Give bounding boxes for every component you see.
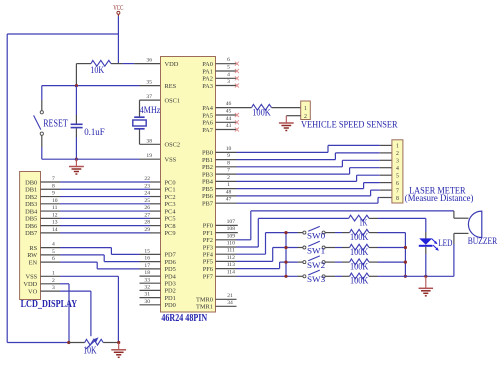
svg-text:6: 6 [396,181,399,187]
svg-text:SW3: SW3 [307,274,325,284]
svg-text:PB6: PB6 [202,193,213,200]
pin PA5 45 stub no-connect [216,114,237,116]
wire top horizontal from VCC [7,33,118,35]
junction right SW2 [404,261,407,264]
wire LCD VDD down [41,284,70,343]
pin PA6 44 stub no-connect [216,121,237,123]
wire PB0 pin 10 to laser meter pin 1 [216,145,392,152]
svg-text:6: 6 [52,256,55,262]
svg-text:33: 33 [144,277,150,283]
svg-text:29: 29 [144,227,150,233]
svg-text:22: 22 [144,176,150,182]
wire PB3 pin 7 to laser meter pin 4 [216,168,392,174]
svg-text:10: 10 [52,198,58,204]
svg-text:114: 114 [227,269,235,275]
svg-text:PD3: PD3 [165,281,176,288]
junction right SW1 [404,246,407,249]
pin stub 32 no-connect [140,289,161,291]
svg-text:RESET: RESET [43,118,68,129]
resistor 100K SW0 [325,229,377,235]
svg-text:TMR1: TMR1 [196,304,213,311]
wire PF4 to SW0 row [216,233,303,255]
svg-text:12: 12 [52,212,58,218]
svg-text:PD7: PD7 [165,252,177,259]
svg-text:5: 5 [52,249,55,255]
svg-text:34: 34 [227,300,233,306]
svg-text:37: 37 [146,94,152,100]
svg-text:16: 16 [144,256,150,262]
svg-text:PA1: PA1 [202,68,213,75]
svg-text:RS: RS [29,245,37,252]
svg-text:DB3: DB3 [25,201,37,208]
svg-text:32: 32 [144,285,150,291]
pin stub 33 no-connect [140,282,161,284]
svg-text:PC9: PC9 [165,230,176,237]
svg-text:PC2: PC2 [165,194,176,201]
svg-text:1: 1 [52,270,55,276]
svg-text:PA6: PA6 [202,120,213,127]
resistor 100K SW2 [325,259,377,265]
svg-text:DB7: DB7 [25,230,38,237]
svg-text:10K: 10K [90,66,104,76]
svg-text:PF7: PF7 [203,274,214,281]
svg-text:PC5: PC5 [165,216,176,223]
wire LCD DB0 to PC pin 22 [41,181,161,183]
junction cap-resistor-RES [75,84,78,87]
wire RES row [42,85,140,87]
svg-text:TMR0: TMR0 [196,297,213,304]
svg-text:5: 5 [396,173,399,179]
wire LCD DB5 to PC pin 27 [41,217,161,219]
svg-text:100K: 100K [350,263,369,273]
svg-text:RES: RES [165,83,177,90]
wire reset bottom to VSS [42,158,140,160]
junction LED cathode rail [424,275,427,278]
svg-text:24: 24 [144,191,150,197]
svg-text:109: 109 [227,233,236,239]
wire PB2 pin 8 to laser meter pin 3 [216,160,392,167]
wire VDD pin segment [123,63,135,65]
wire LCD pin 5 to IC pin 16 [41,255,161,262]
svg-text:107: 107 [227,219,236,225]
ground LED [425,276,427,288]
svg-text:100K: 100K [350,233,369,243]
svg-text:OSC1: OSC1 [165,97,181,104]
svg-text:8: 8 [396,196,399,202]
resistor 100K speed sensor [216,104,301,110]
svg-text:30: 30 [144,299,150,305]
pin stub 31 no-connect [140,297,161,299]
resistor 1K [349,215,426,221]
switch SW3 [303,270,325,278]
svg-text:PF1: PF1 [203,230,213,237]
wire 100K SW2 to common vertical [378,261,406,263]
wire bottom rail [7,342,69,344]
svg-text:7: 7 [52,176,55,182]
svg-text:100K: 100K [350,277,369,287]
svg-text:PC1: PC1 [165,187,176,194]
wire left outer vertical [6,34,8,343]
pin RES 35 stub [140,85,161,87]
svg-text:17: 17 [144,263,150,269]
svg-text:8: 8 [52,183,55,189]
svg-text:PB0: PB0 [202,150,213,157]
svg-text:27: 27 [144,212,150,218]
svg-text:PB4: PB4 [202,179,214,186]
svg-text:3: 3 [396,159,399,165]
svg-text:SW2: SW2 [307,260,325,270]
pin PA1 5 stub no-connect [216,70,237,72]
svg-text:38: 38 [146,138,152,144]
ground sensor [285,116,287,123]
svg-text:RW: RW [27,252,38,259]
svg-text:(Measure Distance): (Measure Distance) [405,193,474,204]
wire PB5 pin 1 to laser meter pin 6 [216,183,392,189]
junction SW2 left [284,261,287,264]
svg-text:SW1: SW1 [307,245,325,255]
wire PF6 to SW2 row [216,262,303,269]
wire PB1 pin 9 to laser meter pin 2 [216,153,392,160]
svg-text:4MHz: 4MHz [140,106,161,116]
svg-text:OSC2: OSC2 [165,142,181,149]
svg-text:18: 18 [144,270,150,276]
svg-text:48: 48 [226,189,232,195]
wire LCD DB1 to PC pin 23 [41,188,161,190]
wire 100K SW1 to common vertical [378,247,406,249]
op IC U1 46R24 48PIN body [161,57,216,313]
svg-text:4: 4 [396,166,399,172]
svg-text:2: 2 [227,175,230,181]
svg-text:PD6: PD6 [165,259,176,266]
wire LCD DB7 to PC pin 29 [41,232,161,234]
pin OSC1 37 stub [140,99,161,101]
wire LCD pin 6 to IC pin 17 [41,262,161,269]
svg-text:DB2: DB2 [25,194,37,201]
svg-text:DB6: DB6 [25,223,37,230]
connector laser meter body [392,140,403,203]
wire LCD DB3 to PC pin 25 [41,203,161,205]
svg-text:0.1uF: 0.1uF [84,128,105,138]
svg-text:PF3: PF3 [203,244,213,251]
svg-text:PF2: PF2 [203,237,213,244]
svg-text:5: 5 [227,65,230,71]
svg-text:36: 36 [146,58,152,64]
svg-text:PA4: PA4 [202,105,214,112]
svg-text:VSS: VSS [165,157,177,164]
pin PA7 43 stub no-connect [216,129,237,131]
wire sensor pin 2 to ground [286,115,300,117]
svg-text:1: 1 [227,182,230,188]
pin OSC2 38 stub [140,143,161,145]
svg-text:PD1: PD1 [165,295,176,302]
svg-text:7: 7 [227,168,230,174]
wire PB4 pin 2 to laser meter pin 5 [216,175,392,181]
svg-text:1K: 1K [359,219,367,229]
diode LED [419,218,439,276]
svg-text:13: 13 [52,220,58,226]
laser meter pin labels 1-8 [396,144,399,202]
switch SW2 [303,256,325,264]
svg-text:7: 7 [396,188,399,194]
junction VDD rail [67,341,70,344]
svg-text:113: 113 [227,262,235,268]
svg-text:8: 8 [227,160,230,166]
switch SW1 [303,241,325,249]
svg-text:1: 1 [396,144,399,150]
wire LCD VSS to ground rail [41,276,119,342]
svg-text:25: 25 [144,198,150,204]
svg-text:VEHICLE SPEED SENSER: VEHICLE SPEED SENSER [301,120,398,131]
svg-text:35: 35 [146,80,152,86]
svg-text:PA5: PA5 [202,112,213,119]
svg-text:VDD: VDD [23,281,37,288]
svg-text:11: 11 [52,205,58,211]
svg-text:9: 9 [52,191,55,197]
svg-text:DB1: DB1 [25,187,37,194]
pin PA2 4 stub no-connect [216,77,237,79]
svg-text:46R24 48PIN: 46R24 48PIN [161,313,207,324]
svg-text:PA2: PA2 [202,76,213,83]
wire LCD DB4 to PC pin 26 [41,210,161,212]
svg-text:3: 3 [227,79,230,85]
svg-text:10K: 10K [83,346,97,357]
svg-text:PB1: PB1 [202,157,213,164]
junction SW3 left [284,275,287,278]
svg-text:10: 10 [226,146,232,152]
pin PA0 6 stub no-connect [216,63,237,65]
svg-text:46: 46 [226,101,232,107]
svg-text:9: 9 [227,153,230,159]
svg-text:PD5: PD5 [165,266,176,273]
svg-text:PF0: PF0 [203,223,213,230]
pin VDD 36 stub [134,63,160,65]
junction right SW3 [404,275,407,278]
svg-text:PB7: PB7 [202,201,214,208]
potentiometer 10K [69,337,119,349]
svg-text:PA3: PA3 [202,83,213,90]
resistor 100K SW1 [325,244,377,250]
svg-text:DB5: DB5 [25,216,37,223]
wire LCD DB6 to PC pin 28 [41,225,161,227]
wire switch common right vertical [404,233,406,277]
buzzer LS1 [454,211,482,276]
svg-text:15: 15 [144,249,150,255]
svg-text:VO: VO [28,288,38,295]
svg-text:PF5: PF5 [203,259,213,266]
svg-text:LED: LED [438,239,452,249]
power symbol VCC [113,4,123,16]
svg-text:23: 23 [144,183,150,189]
wire LCD VO to pot wiper [41,291,91,336]
svg-text:108: 108 [227,226,236,232]
wire PF2 to buzzer row [216,211,454,240]
LCD pin names [23,179,38,295]
pin PA3 3 stub no-connect [216,85,237,87]
svg-text:21: 21 [227,293,233,299]
wire PF3 to 1K resistor row [216,218,349,247]
IC left pin names [165,61,181,309]
IC right pin names [196,61,214,311]
wire VCC vertical to VDD row [117,16,119,63]
wire PF7 to SW3 row [216,275,303,277]
junction SW0 left [284,231,287,234]
ground pot [118,343,120,350]
pin TMR1 34 stub no-connect [216,305,237,307]
svg-text:4: 4 [52,242,55,248]
svg-text:PF6: PF6 [203,266,213,273]
svg-text:100K: 100K [350,248,369,258]
wire PB6 pin 48 to laser meter pin 7 [216,190,392,196]
svg-text:PA7: PA7 [202,127,214,134]
svg-text:PB5: PB5 [202,186,213,193]
switch SW0 [303,226,325,234]
connector LCD body [20,172,41,300]
svg-text:VDD: VDD [165,61,179,68]
svg-text:44: 44 [226,116,232,122]
svg-text:14: 14 [52,227,58,233]
wire LCD pin 4 to IC pin 15 [41,248,161,255]
svg-text:PF4: PF4 [203,252,214,259]
wire switch common left vertical [285,233,287,277]
svg-text:19: 19 [146,153,152,159]
crystal Y1 4MHz [133,100,146,144]
junction SW1 left [284,246,287,249]
svg-text:DB4: DB4 [25,208,38,215]
svg-text:31: 31 [144,292,150,298]
svg-text:PD2: PD2 [165,288,176,295]
svg-text:VSS: VSS [25,274,37,281]
svg-text:28: 28 [144,220,150,226]
svg-text:PD4: PD4 [165,273,177,280]
switch RESET [34,86,44,160]
capacitor 0.1uF [71,86,83,160]
svg-text:4: 4 [227,72,230,78]
svg-text:112: 112 [227,255,235,261]
svg-text:PC8: PC8 [165,223,176,230]
svg-text:EN: EN [29,259,38,266]
svg-text:PC4: PC4 [165,208,177,215]
svg-text:3: 3 [52,285,55,291]
junction pot ground [117,341,120,344]
pin TMR0 21 stub no-connect [216,298,237,300]
svg-text:PB3: PB3 [202,171,213,178]
pin stub 18 no-connect [140,275,161,277]
wire PF5 to SW1 row [216,248,303,262]
svg-text:PD0: PD0 [165,302,176,309]
wire PB7 pin 47 to laser meter pin 8 [216,198,392,204]
pin stub 30 no-connect [140,304,161,306]
svg-text:BUZZER: BUZZER [468,237,498,247]
svg-text:SW0: SW0 [307,231,325,241]
connector vehicle speed sensor body [301,101,311,120]
svg-text:PC0: PC0 [165,179,176,186]
junction cap bottom [75,158,78,161]
svg-text:PC3: PC3 [165,201,176,208]
svg-text:1: 1 [304,106,307,112]
svg-text:45: 45 [226,109,232,115]
resistor 100K SW3 [325,273,377,279]
svg-text:PA0: PA0 [202,61,213,68]
pin PF0 107 stub no-connect [216,224,238,226]
svg-text:110: 110 [227,241,235,247]
svg-text:2: 2 [52,278,55,284]
svg-text:DB0: DB0 [25,179,37,186]
svg-text:PB2: PB2 [202,164,213,171]
resistor 10K pull-up [76,60,122,85]
svg-text:26: 26 [144,205,150,211]
svg-text:6: 6 [227,57,230,63]
pin VSS 19 stub [140,158,161,160]
ground reset [75,159,77,166]
wire ground rail bottom right [378,275,454,277]
pin PF1 108 stub no-connect [216,232,238,234]
svg-text:2: 2 [396,151,399,157]
svg-text:43: 43 [226,123,232,129]
wire LCD DB2 to PC pin 24 [41,196,161,198]
wire 100K SW0 to common vertical [378,232,406,234]
svg-text:47: 47 [226,197,232,203]
svg-text:100K: 100K [252,108,271,118]
svg-text:111: 111 [227,248,235,254]
